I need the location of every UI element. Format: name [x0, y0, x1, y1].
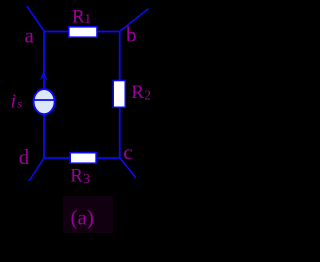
svg-text:1: 1	[84, 11, 91, 26]
svg-text:b: b	[126, 22, 137, 46]
resistor R3	[70, 153, 96, 164]
wire top a-b	[44, 31, 120, 33]
resistor R2	[113, 81, 125, 108]
wire stub diagonal at node c	[120, 158, 136, 178]
caption highlight box	[63, 196, 113, 233]
svg-text:R: R	[70, 166, 83, 187]
current source is circle	[34, 89, 55, 114]
wire stub diagonal at node d	[29, 158, 44, 181]
svg-text:3: 3	[83, 171, 90, 186]
svg-text:i: i	[11, 90, 17, 112]
svg-text:a: a	[25, 24, 35, 48]
svg-text:s: s	[17, 97, 22, 111]
wire right b-c	[119, 32, 121, 159]
svg-text:c: c	[123, 140, 132, 164]
resistor R1	[69, 27, 97, 37]
svg-text:2: 2	[144, 88, 151, 103]
wire stub diagonal at node a	[27, 6, 44, 31]
wire left a-d	[43, 32, 45, 159]
current source chord line	[34, 99, 55, 101]
wire stub diagonal at node b	[120, 9, 149, 31]
svg-text:R: R	[72, 6, 85, 27]
wire bottom d-c	[44, 157, 120, 159]
svg-text:d: d	[19, 145, 30, 169]
current source arrow	[40, 71, 48, 81]
svg-text:(a): (a)	[71, 206, 94, 230]
svg-text:R: R	[131, 82, 144, 103]
